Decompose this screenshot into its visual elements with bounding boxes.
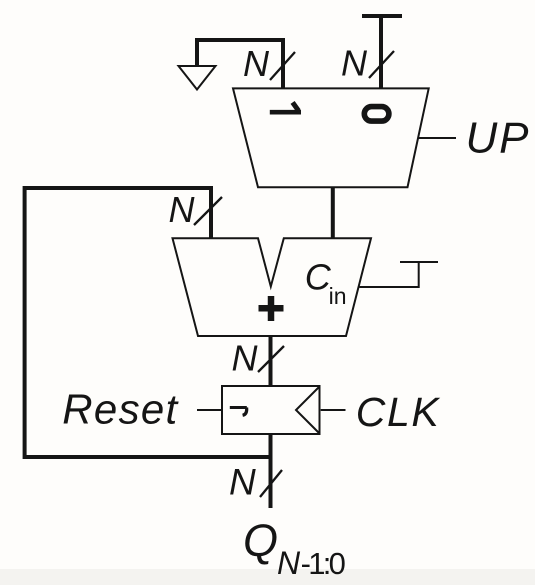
wire: Reset stub [197,409,221,411]
bus slash (register output) [260,470,282,497]
svg-text:N: N [169,189,196,230]
svg-text:N: N [229,462,256,503]
wire: adder output to register D [269,336,273,386]
wire: mux output to adder B input [331,187,335,238]
wire: ground to mux D1 input [197,40,283,89]
feedback wire (register Q to adder A input, around the left) [25,188,271,457]
constant T-bar (Cin) [400,261,438,263]
register [222,386,320,434]
svg-text:-1:0: -1:0 [301,546,346,581]
mux label 0 (rotated) [364,107,389,122]
wire: mux select stub [418,137,456,139]
svg-text:N: N [232,338,259,379]
bus slash (adder output) [258,346,284,372]
ground [179,66,216,90]
mux (trapezoid) [233,88,429,187]
svg-text:N: N [243,43,270,84]
svg-text:Reset: Reset [62,386,179,433]
wire: register Q output [269,434,273,508]
bus slash (mux D1 input) [270,52,295,80]
power/constant T-bar (1) feeding mux D0 [362,14,402,18]
svg-text:Q: Q [243,515,278,566]
register reset r symbol (rotated) [230,408,247,416]
wire: T-bar to mux D0 input [379,16,383,89]
wire: CLK stub [321,409,346,411]
wire: Cin to constant 1 T-bar [360,262,419,287]
adder (trapezoid with V notch) [173,238,372,336]
register clock wedge [296,387,320,434]
svg-text:N: N [341,43,368,84]
svg-text:in: in [329,283,347,309]
svg-text:N: N [277,545,301,581]
adder + symbol [259,296,284,321]
mux label 1 (rotated) [270,102,301,112]
bus slash (mux D0 input) [369,51,394,78]
bus slash (adder A input) [194,197,222,225]
svg-text:CLK: CLK [356,389,441,435]
svg-text:UP: UP [466,114,531,163]
